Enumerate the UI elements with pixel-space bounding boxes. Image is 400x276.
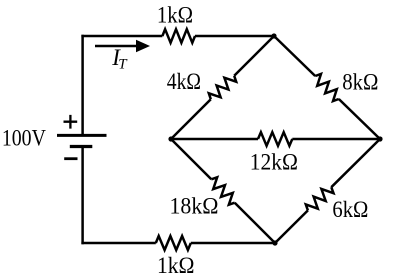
node C (left junction dot) — [168, 136, 173, 141]
node B (top junction dot) — [271, 33, 276, 38]
voltage source V1 100V (battery plates) — [57, 135, 107, 146]
resistor R2 4kΩ (zigzag) — [209, 76, 236, 99]
resistor R3 8kΩ (zigzag) — [315, 74, 339, 101]
value label 12kΩ — [250, 149, 298, 175]
svg-text:1kΩ: 1kΩ — [157, 253, 195, 276]
wire: diagonal top node to 4k resistor — [234, 36, 274, 76]
svg-text:4kΩ: 4kΩ — [167, 69, 201, 95]
resistor R7 1kΩ (bottom, zigzag) — [156, 236, 191, 250]
svg-text:12kΩ: 12kΩ — [250, 149, 298, 175]
value label 8kΩ — [342, 70, 378, 96]
svg-text:1kΩ: 1kΩ — [157, 3, 193, 29]
resistor R6 6kΩ (zigzag) — [306, 187, 334, 210]
wire: diagonal top node to 8k resistor — [274, 36, 315, 76]
wire: middle horizontal left node to 12k resistor — [171, 138, 258, 141]
wire: top-left horizontal segment from source to 1k resistor — [81, 35, 162, 38]
value label 6kΩ — [332, 197, 368, 223]
wire: top horizontal segment from 1k resistor to top node — [195, 35, 274, 38]
wire: left vertical segment from battery bottom plate to bottom-left corner — [81, 147, 84, 245]
wire: bottom horizontal segment from corner to bottom 1k resistor — [81, 242, 155, 245]
resistor R4 12kΩ (zigzag) — [258, 132, 292, 146]
wire: bottom horizontal segment from 1k resistor to bottom node — [191, 242, 275, 245]
value label 4kΩ — [167, 69, 201, 95]
current arrow I_T — [95, 40, 150, 53]
svg-text:100V: 100V — [2, 125, 46, 151]
plus terminal sign of V1 — [64, 115, 78, 129]
label I_T — [111, 45, 128, 72]
wire: diagonal 4k resistor to left node — [171, 99, 211, 139]
value label 1kΩ (bottom) — [157, 253, 195, 276]
value label 100V — [2, 125, 46, 151]
value label 1kΩ (top) — [157, 3, 193, 29]
value label 18kΩ — [170, 193, 219, 219]
resistor R1 1kΩ (top, zigzag) — [162, 29, 195, 43]
node D (right junction dot) — [377, 136, 382, 141]
minus terminal sign of V1 — [64, 157, 77, 160]
wire: middle horizontal 12k resistor to right node — [292, 138, 380, 141]
resistor R5 18kΩ (zigzag) — [211, 177, 234, 204]
wire: diagonal right node to 6k resistor — [331, 139, 380, 187]
wire: left vertical segment from top-left corner to battery top plate — [81, 35, 84, 136]
wire: diagonal 6k resistor to bottom node — [275, 210, 308, 243]
wire: diagonal left node to 18k resistor — [171, 139, 211, 179]
node E (bottom junction dot) — [272, 240, 277, 245]
wire: diagonal 18k resistor to bottom node — [235, 203, 275, 243]
wire: diagonal 8k resistor to right node — [339, 99, 380, 139]
svg-text:6kΩ: 6kΩ — [332, 197, 368, 223]
svg-text:8kΩ: 8kΩ — [342, 70, 378, 96]
svg-text:18kΩ: 18kΩ — [170, 193, 219, 219]
